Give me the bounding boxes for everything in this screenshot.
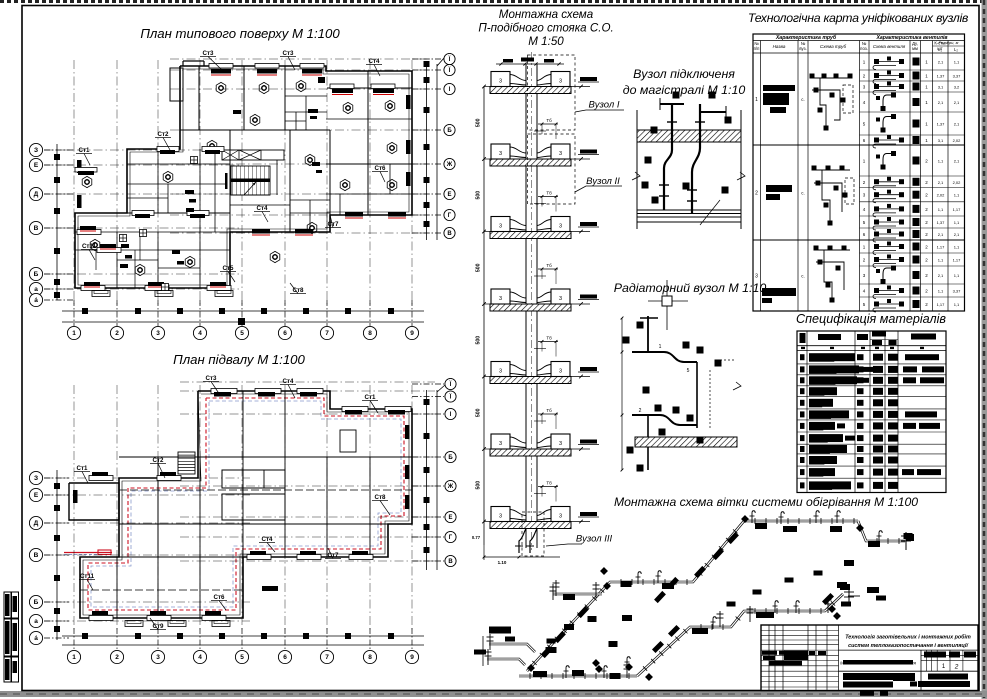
svg-text:3: 3 xyxy=(156,330,160,337)
svg-text:Специфікація матеріалів: Специфікація матеріалів xyxy=(796,312,946,326)
svg-text:3: 3 xyxy=(559,79,562,85)
svg-text:с.: с. xyxy=(801,274,805,279)
svg-text:Ст2: Ст2 xyxy=(153,457,164,464)
svg-text:2,1: 2,1 xyxy=(938,232,944,237)
axonometric step to H3 xyxy=(858,521,905,544)
svg-text:Ст1: Ст1 xyxy=(365,394,376,401)
floor plan outline walls xyxy=(75,66,412,288)
break marks xyxy=(632,172,640,180)
svg-text:М 1:50: М 1:50 xyxy=(528,35,564,48)
svg-text:2,02: 2,02 xyxy=(953,180,962,185)
svg-text:1,17: 1,17 xyxy=(953,207,962,212)
svg-text:Тб: Тб xyxy=(546,336,552,341)
svg-text:Монтажна схема системи опаленн: Монтажна схема системи опалення xyxy=(840,661,917,666)
svg-text:1,17: 1,17 xyxy=(953,258,962,263)
svg-text:Ст8: Ст8 xyxy=(375,494,386,501)
svg-text:1,17: 1,17 xyxy=(937,245,946,250)
svg-text:Г: Г xyxy=(448,213,452,219)
svg-text:2,1: 2,1 xyxy=(938,180,944,185)
svg-text:3: 3 xyxy=(499,79,502,85)
svg-text:Ст1: Ст1 xyxy=(77,465,88,472)
svg-text:вуз.: вуз. xyxy=(799,46,806,51)
svg-text:с.: с. xyxy=(801,191,805,196)
svg-text:Ст3: Ст3 xyxy=(283,50,294,57)
svg-text:Е: Е xyxy=(447,192,451,198)
svg-text:500: 500 xyxy=(476,408,482,417)
svg-text:Б: Б xyxy=(447,128,452,134)
svg-text:Ст3: Ст3 xyxy=(206,375,217,382)
svg-text:3,2: 3,2 xyxy=(954,85,960,90)
svg-text:2,1: 2,1 xyxy=(954,159,960,164)
svg-text:8: 8 xyxy=(368,654,372,661)
axonometric big diagonal D1 xyxy=(527,521,744,671)
svg-text:Ж: Ж xyxy=(447,484,454,490)
svg-text:1,1: 1,1 xyxy=(954,60,960,65)
svg-text:1,37: 1,37 xyxy=(937,74,946,79)
radiator vuzol dims xyxy=(621,318,623,418)
floor plan room symbols xyxy=(82,80,397,275)
svg-text:Ст4: Ст4 xyxy=(369,58,380,65)
svg-text:Ст11: Ст11 xyxy=(82,243,97,250)
svg-text:Технологічна карта уніфіковани: Технологічна карта уніфікованих вузлів xyxy=(748,11,969,25)
basement radiators and risers xyxy=(73,389,411,627)
svg-text:500: 500 xyxy=(476,191,482,200)
axonometric end riser right xyxy=(901,532,914,550)
svg-text:1,37: 1,37 xyxy=(937,220,946,225)
svg-text:7: 7 xyxy=(325,654,329,661)
svg-text:2: 2 xyxy=(639,408,642,414)
svg-text:Схема вентиля: Схема вентиля xyxy=(873,44,906,49)
svg-text:2,1: 2,1 xyxy=(938,273,944,278)
small marks below title block xyxy=(860,691,888,696)
magistral pipes xyxy=(637,209,741,211)
svg-text:3,1: 3,1 xyxy=(938,138,944,143)
svg-text:Ст7: Ст7 xyxy=(328,552,339,559)
spec table xyxy=(797,331,946,493)
axonometric elbow diamonds xyxy=(528,516,864,681)
svg-text:Ї: Ї xyxy=(448,56,451,63)
detail vuzol pidklyuchennya do magistrali xyxy=(632,92,745,230)
svg-text:3: 3 xyxy=(559,441,562,447)
pipe 2 (right riser) xyxy=(692,104,700,213)
svg-text:6: 6 xyxy=(283,330,287,337)
left margin stamp boxes xyxy=(4,592,19,682)
svg-text:3,1: 3,1 xyxy=(938,85,944,90)
radiator vuzol pipes xyxy=(647,316,649,352)
svg-text:Ст11: Ст11 xyxy=(80,573,95,580)
svg-text:3,37: 3,37 xyxy=(953,74,962,79)
svg-text:Ст1: Ст1 xyxy=(79,147,90,154)
svg-text:2,1: 2,1 xyxy=(954,100,960,105)
axonometric valve vticks xyxy=(553,580,832,678)
axonometric main route supply xyxy=(519,673,637,679)
svg-text:1,1: 1,1 xyxy=(954,220,960,225)
basement outline walls xyxy=(69,391,412,618)
svg-text:3: 3 xyxy=(559,369,562,375)
svg-text:1.10: 1.10 xyxy=(498,560,507,565)
svg-text:Ст2: Ст2 xyxy=(158,131,169,138)
svg-text:2: 2 xyxy=(115,330,119,337)
svg-text:Ї: Ї xyxy=(449,381,452,388)
svg-text:Ст4: Ст4 xyxy=(262,536,273,543)
svg-text:Б: Б xyxy=(34,599,39,606)
table tehnologichna karta xyxy=(753,34,965,311)
black label squares detail2 xyxy=(637,322,644,329)
svg-text:7: 7 xyxy=(325,330,329,337)
svg-text:3,37: 3,37 xyxy=(953,289,962,294)
svg-text:Характеристика труб: Характеристика труб xyxy=(775,34,837,41)
axonometric diagonal radiator rects xyxy=(541,532,834,658)
svg-text:5: 5 xyxy=(687,368,690,374)
svg-text:Назва: Назва xyxy=(773,44,786,49)
table row drawings and values xyxy=(755,85,805,303)
radiator vuzol slab xyxy=(635,437,737,447)
svg-text:500: 500 xyxy=(476,336,482,345)
svg-text:3: 3 xyxy=(559,224,562,230)
axonometric top horizontal H2 xyxy=(744,518,858,524)
svg-text:Ст4: Ст4 xyxy=(257,205,268,212)
svg-text:1: 1 xyxy=(72,330,76,337)
svg-text:а́: а́ xyxy=(34,296,38,304)
axonometric black labels xyxy=(474,523,913,679)
pipe 1 (left riser) xyxy=(664,104,672,210)
basement riser labels xyxy=(74,375,390,630)
left dimension line of stack xyxy=(483,86,485,545)
svg-text:1,1: 1,1 xyxy=(938,159,944,164)
svg-text:5: 5 xyxy=(240,330,244,337)
detail radiatornyi vuzol xyxy=(621,280,741,472)
svg-text:Розміри, м: Розміри, м xyxy=(939,40,959,45)
svg-text:9: 9 xyxy=(410,654,414,661)
svg-text:до магістралі М 1:10: до магістралі М 1:10 xyxy=(623,83,746,97)
svg-text:1,1: 1,1 xyxy=(954,273,960,278)
svg-text:В: В xyxy=(34,225,39,232)
svg-text:Вузол ІІІ: Вузол ІІІ xyxy=(576,534,613,545)
svg-text:1: 1 xyxy=(659,344,662,350)
stack schematic P-podibnyi stoyak xyxy=(472,52,624,565)
svg-text:Г: Г xyxy=(449,535,453,541)
svg-text:1,1: 1,1 xyxy=(938,258,944,263)
svg-text:2,02: 2,02 xyxy=(953,138,962,143)
svg-text:Тб: Тб xyxy=(546,191,552,196)
svg-text:поз.: поз. xyxy=(860,46,868,51)
floor plan axis grid xyxy=(44,59,430,305)
floor plan small fixtures xyxy=(120,110,323,291)
svg-text:2: 2 xyxy=(755,191,758,197)
svg-text:Вузол підключеня: Вузол підключеня xyxy=(633,67,735,81)
floor plan riser labels xyxy=(76,50,388,294)
svg-text:Вузол ІІ: Вузол ІІ xyxy=(586,176,620,187)
svg-text:1,1: 1,1 xyxy=(954,245,960,250)
svg-text:3: 3 xyxy=(156,654,160,661)
svg-text:Ст5: Ст5 xyxy=(223,265,234,272)
svg-text:L₁: L₁ xyxy=(938,47,942,52)
svg-text:2,1: 2,1 xyxy=(938,60,944,65)
svg-text:3: 3 xyxy=(499,296,502,302)
vuzol II dashed box xyxy=(528,134,623,204)
svg-text:2: 2 xyxy=(115,654,119,661)
svg-text:3: 3 xyxy=(559,514,562,520)
vuzol III dashed box xyxy=(522,512,612,556)
svg-text:В: В xyxy=(448,559,453,565)
floor plan radiators xyxy=(75,64,411,297)
title block xyxy=(761,625,978,691)
svg-text:систем теплогазопостачання і в: систем теплогазопостачання і вентиляції xyxy=(848,643,969,649)
svg-text:З: З xyxy=(34,475,38,482)
svg-text:5: 5 xyxy=(240,654,244,661)
floor plan interior walls xyxy=(75,61,412,288)
svg-text:с.: с. xyxy=(801,97,805,102)
svg-text:Б: Б xyxy=(34,271,39,278)
svg-text:Технологія заготівельних і мон: Технологія заготівельних і монтажних роб… xyxy=(845,634,971,641)
axonometric lower return route xyxy=(637,594,843,676)
svg-text:1,1: 1,1 xyxy=(938,289,944,294)
svg-text:1,17: 1,17 xyxy=(937,302,946,307)
svg-text:Ст4: Ст4 xyxy=(283,378,294,385)
svg-text:План підвалу М 1:100: План підвалу М 1:100 xyxy=(173,352,305,367)
svg-text:2,1: 2,1 xyxy=(938,100,944,105)
table right sub-row contents xyxy=(863,57,961,313)
svg-text:п/п: п/п xyxy=(754,46,760,51)
axonometric branch stub xyxy=(550,584,603,600)
svg-text:L₂: L₂ xyxy=(954,47,958,52)
svg-text:Ст7: Ст7 xyxy=(328,221,339,228)
svg-text:З: З xyxy=(34,147,38,154)
svg-text:3: 3 xyxy=(499,224,502,230)
valves and flanges xyxy=(659,184,669,186)
svg-text:а́: а́ xyxy=(34,634,38,642)
svg-text:1,1: 1,1 xyxy=(938,207,944,212)
svg-text:Тб: Тб xyxy=(546,481,552,486)
svg-text:Е: Е xyxy=(448,515,452,521)
svg-text:Тб: Тб xyxy=(546,408,552,413)
svg-text:Д: Д xyxy=(34,520,39,527)
svg-text:3: 3 xyxy=(499,514,502,520)
axonometric entry mains xyxy=(483,634,535,666)
svg-text:500: 500 xyxy=(476,263,482,272)
crosshair symbol xyxy=(666,280,668,330)
svg-text:4: 4 xyxy=(198,654,202,661)
svg-text:500: 500 xyxy=(476,481,482,490)
floor plan: typical floor xyxy=(29,53,455,339)
svg-text:3: 3 xyxy=(559,296,562,302)
svg-text:9: 9 xyxy=(410,330,414,337)
svg-text:В: В xyxy=(447,231,452,237)
stack bottom pipes xyxy=(472,529,560,566)
svg-text:Радіаторний вузол М 1:10: Радіаторний вузол М 1:10 xyxy=(614,281,767,295)
svg-text:Е: Е xyxy=(34,492,39,499)
scan edge bottom strip xyxy=(0,691,987,697)
svg-text:3: 3 xyxy=(499,151,502,157)
svg-text:П-подібного стояка С.О.: П-подібного стояка С.О. xyxy=(478,22,613,35)
svg-text:4: 4 xyxy=(198,330,202,337)
svg-text:Монтажна схема вітки системи о: Монтажна схема вітки системи обігрівання… xyxy=(614,495,918,509)
svg-text:Ї: Ї xyxy=(448,67,451,74)
svg-text:3: 3 xyxy=(755,274,758,280)
basement plan axes xyxy=(29,378,456,663)
svg-text:1: 1 xyxy=(72,654,76,661)
black label squares detail1 xyxy=(673,92,680,99)
svg-text:2: 2 xyxy=(954,664,959,671)
svg-text:мм: мм xyxy=(912,46,918,51)
risers xyxy=(525,64,527,548)
svg-text:Б: Б xyxy=(448,455,453,461)
table big schema drawings xyxy=(810,74,855,303)
svg-text:1: 1 xyxy=(755,97,758,103)
svg-text:Ї: Ї xyxy=(449,394,452,401)
scan edge right strip xyxy=(982,0,987,699)
svg-text:3: 3 xyxy=(499,369,502,375)
svg-text:План типового поверху М 1:100: План типового поверху М 1:100 xyxy=(140,26,340,41)
svg-text:3: 3 xyxy=(499,441,502,447)
svg-text:Вузол І: Вузол І xyxy=(588,100,619,111)
svg-text:Ст6: Ст6 xyxy=(214,594,225,601)
basement axis grid xyxy=(44,382,435,630)
svg-text:500: 500 xyxy=(476,118,482,127)
ceiling slab hatched xyxy=(637,130,741,142)
svg-text:В: В xyxy=(34,552,39,559)
svg-text:1,37: 1,37 xyxy=(937,122,946,127)
svg-text:Монтажна схема: Монтажна схема xyxy=(499,8,594,21)
basement red heating mains xyxy=(64,398,404,610)
svg-text:Ж: Ж xyxy=(446,162,453,168)
svg-text:Тб: Тб xyxy=(546,118,552,123)
svg-text:8: 8 xyxy=(368,330,372,337)
svg-text:Ст3: Ст3 xyxy=(203,50,214,57)
svg-text:6: 6 xyxy=(283,654,287,661)
svg-text:1,1: 1,1 xyxy=(954,193,960,198)
svg-text:2,02: 2,02 xyxy=(937,193,946,198)
svg-text:0.77: 0.77 xyxy=(472,535,481,540)
svg-text:2,1: 2,1 xyxy=(954,232,960,237)
svg-text:Ст6: Ст6 xyxy=(375,165,386,172)
axonometric riser squiggles xyxy=(564,511,883,678)
svg-text:а: а xyxy=(34,286,38,293)
basement interior walls xyxy=(80,391,412,618)
scan edge top dotted strip xyxy=(0,0,987,3)
svg-text:1,1: 1,1 xyxy=(954,302,960,307)
svg-text:Тб: Тб xyxy=(546,263,552,268)
svg-text:Д: Д xyxy=(34,191,39,198)
axonometric end cluster lower xyxy=(840,584,860,604)
svg-text:Схема труб: Схема труб xyxy=(820,44,847,49)
svg-text:а: а xyxy=(34,618,38,625)
svg-text:Е: Е xyxy=(34,162,39,169)
svg-text:2,1: 2,1 xyxy=(954,122,960,127)
vuzol I dashed box xyxy=(528,55,625,130)
svg-text:3: 3 xyxy=(559,151,562,157)
